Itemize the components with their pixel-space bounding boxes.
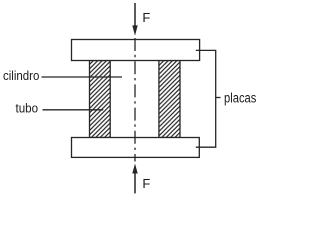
svg-text:F: F [142, 176, 150, 191]
leader line cilindro [42, 76, 123, 78]
bottom force arrow shaft [134, 174, 136, 194]
centerline (dash-dot) [134, 38, 136, 162]
tube wall left (hatched) [90, 61, 111, 138]
top force arrowhead [132, 25, 137, 35]
svg-text:F: F [142, 10, 150, 25]
placas tick [216, 97, 221, 99]
top plate [72, 40, 200, 61]
svg-text:cilindro: cilindro [3, 68, 39, 83]
leader line tubo [43, 109, 104, 111]
svg-text:placas: placas [224, 91, 257, 106]
tube wall right (hatched) [159, 61, 180, 138]
bottom plate [72, 138, 200, 158]
bottom force arrowhead [132, 164, 137, 174]
top force arrow shaft [134, 3, 136, 27]
svg-text:tubo: tubo [16, 100, 39, 115]
placas bracket [196, 50, 216, 147]
